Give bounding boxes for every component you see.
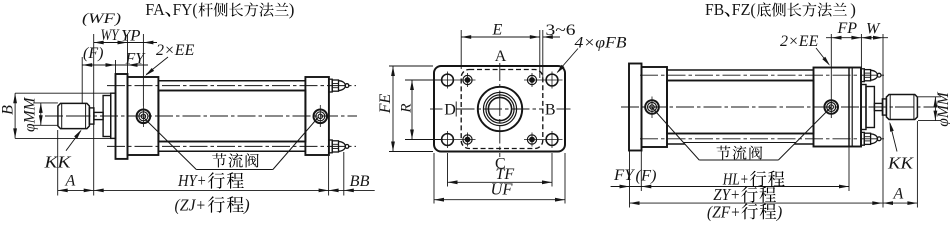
- dim A right arrows: [883, 201, 893, 205]
- throttle valve banner left view: [178, 152, 288, 170]
- dim FP W line: [826, 37, 888, 39]
- svg-text:φMM: φMM: [22, 97, 39, 132]
- svg-text:FA: FA: [145, 0, 165, 19]
- label jie-liu-fa right: [717, 146, 731, 160]
- leader 2xEE right: [816, 48, 829, 65]
- dim phiMM: [40, 103, 42, 125]
- dim UF: [433, 153, 435, 204]
- tie rod bottom centerline right: [640, 138, 884, 140]
- dim phiMM right: [934, 97, 936, 121]
- bottom dimension line left view: [58, 189, 344, 191]
- leader KK left: [66, 131, 81, 151]
- tie rod top centerline right: [640, 74, 884, 76]
- piston rod right view: [874, 103, 882, 110]
- svg-text:(WF): (WF): [82, 11, 121, 27]
- svg-text:(F): (F): [83, 45, 103, 62]
- piston rod: [94, 112, 103, 119]
- svg-text:A: A: [65, 173, 76, 190]
- svg-text:BB: BB: [350, 173, 370, 190]
- dim B: [14, 93, 16, 138]
- svg-text:W: W: [866, 21, 881, 38]
- svg-text:FP: FP: [837, 20, 858, 37]
- rod washer: [89, 108, 94, 124]
- dim FE: [389, 65, 433, 67]
- svg-text:2×EE: 2×EE: [156, 42, 195, 59]
- gland boss front right view: [866, 87, 874, 128]
- tie rod nut bottom (head face): [861, 132, 864, 145]
- svg-text:φMM: φMM: [935, 91, 950, 126]
- tie rod nut front at 467.5,139.5: [463, 135, 472, 144]
- cylinder tube right view: [667, 81, 814, 134]
- head gland joint line: [848, 68, 850, 147]
- cushion valve right (head) right view: [824, 100, 838, 114]
- tie rod bottom: [158, 150, 305, 152]
- dim WY YP line: [94, 42, 157, 44]
- dim HL FY(F) line: [611, 186, 849, 188]
- rear cap block: [305, 77, 329, 155]
- extension lines right view: [830, 34, 832, 118]
- svg-text:3~6: 3~6: [546, 22, 576, 39]
- svg-text:YP: YP: [121, 28, 141, 45]
- tie rod nut bottom (rear): [329, 140, 332, 153]
- svg-text:A: A: [893, 186, 904, 203]
- rod end nut right view: [886, 95, 917, 120]
- extension lines left view: [81, 57, 83, 103]
- tie rod nut front at 532,80: [527, 75, 536, 84]
- svg-text:B: B: [0, 105, 17, 115]
- svg-text:B: B: [545, 102, 556, 119]
- head block right view: [814, 68, 862, 147]
- piston rod end nut KK: [58, 103, 90, 128]
- flange plate FY (rod side): [116, 74, 128, 159]
- rod washer right view: [882, 99, 886, 115]
- dim ZY line: [630, 202, 883, 204]
- leader 4xphiFB: [558, 49, 579, 73]
- svg-text:WY: WY: [101, 27, 120, 44]
- wire main centerline right view: [621, 106, 937, 108]
- tie rod top centerline: [107, 85, 356, 87]
- svg-text:A: A: [495, 48, 507, 65]
- tie rod top: [158, 80, 305, 82]
- svg-text:(ZF+: (ZF+: [707, 202, 741, 221]
- dim TF: [447, 153, 449, 187]
- tube profile dashed: [461, 70, 543, 149]
- mounting hole phiFB at 447.5,139.5: [442, 134, 454, 146]
- dim E: [460, 30, 462, 69]
- cushion valve right (cap): [314, 110, 328, 124]
- horizontal centerline middle view: [430, 108, 443, 110]
- svg-text:(F): (F): [636, 168, 657, 185]
- svg-text:4×φFB: 4×φFB: [575, 35, 627, 52]
- leader KK right: [890, 123, 897, 151]
- svg-text:): ): [776, 202, 783, 221]
- throttle valve banner right view: [684, 143, 796, 161]
- mounting hole phiFB at 447.5,80: [442, 74, 454, 86]
- svg-text:D: D: [444, 102, 456, 119]
- svg-text:(ZJ+: (ZJ+: [175, 196, 207, 215]
- tie rod bottom right view: [667, 143, 814, 145]
- dim R: [405, 79, 443, 81]
- cushion valve left (head): [137, 110, 151, 124]
- svg-text:KK: KK: [887, 154, 914, 173]
- svg-text:FB: FB: [705, 0, 724, 19]
- svg-text:E: E: [492, 22, 503, 39]
- gland boss rear: [111, 93, 116, 138]
- tie rod nut top (head face): [861, 69, 864, 82]
- flange plate FB (cap side): [629, 64, 642, 151]
- head block: [128, 77, 159, 155]
- tie rod nut front at 532,139.5: [527, 135, 536, 144]
- cushion valve left (cap) right view: [645, 100, 659, 114]
- bore circles: [478, 87, 522, 131]
- svg-text:FY(: FY(: [173, 0, 198, 19]
- svg-text:UF: UF: [491, 180, 514, 199]
- svg-text:FY: FY: [125, 51, 147, 68]
- cap block right view: [642, 67, 668, 147]
- dim 3~6: [542, 30, 544, 78]
- gland boss front: [103, 96, 111, 137]
- vertical centerline middle view: [499, 63, 501, 98]
- svg-text:FE: FE: [377, 94, 394, 115]
- label jie-liu-fa left: [212, 153, 226, 167]
- svg-text:FY: FY: [613, 167, 636, 184]
- tie rod nut front at 467.5,80: [463, 75, 472, 84]
- svg-text:HY+: HY+: [177, 171, 206, 190]
- flange plate front view: [434, 66, 565, 152]
- wire main centerline left view: [45, 115, 357, 117]
- svg-text:FZ(: FZ(: [732, 0, 757, 19]
- dim F FY line: [82, 64, 148, 66]
- gland boss rear right view: [861, 85, 866, 130]
- mounting hole phiFB at 552,80: [546, 74, 558, 86]
- svg-text:R: R: [399, 103, 415, 113]
- leader 2xEE: [146, 57, 168, 75]
- svg-text:2×EE: 2×EE: [780, 33, 819, 50]
- mounting hole phiFB at 552,139.5: [546, 134, 558, 146]
- head gland joint line 2: [851, 68, 853, 147]
- hole row centerlines: [437, 79, 476, 81]
- svg-text:): ): [243, 196, 250, 215]
- tie rod nut top (rear): [329, 79, 332, 92]
- svg-text:KK: KK: [43, 153, 71, 172]
- svg-text:): ): [289, 0, 295, 19]
- svg-text:): ): [850, 0, 856, 19]
- tie rod top right view: [667, 69, 814, 71]
- cylinder tube: [158, 91, 305, 142]
- tie rod bottom centerline: [107, 145, 356, 147]
